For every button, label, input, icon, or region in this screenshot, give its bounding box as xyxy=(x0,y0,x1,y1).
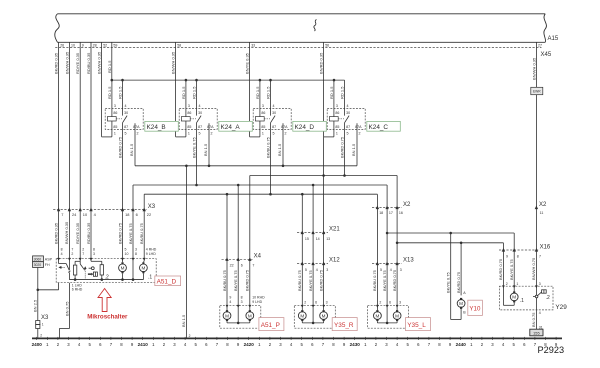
svg-text:30: 30 xyxy=(346,111,350,115)
svg-text:BK/YE 0.75: BK/YE 0.75 xyxy=(308,270,313,291)
svg-text:2: 2 xyxy=(285,132,287,136)
harness band right end curve xyxy=(544,14,547,43)
A51_D switch2 contact wire xyxy=(90,259,92,262)
junction A51_D bus middle xyxy=(132,278,135,281)
component Y35_R dashed box xyxy=(294,306,335,329)
svg-text:2400: 2400 xyxy=(32,342,43,347)
svg-text:BN 0.75: BN 0.75 xyxy=(531,312,536,327)
relay K24_A contact 87 stub xyxy=(196,123,198,130)
svg-text:BK/YE 0.75: BK/YE 0.75 xyxy=(382,270,387,291)
component A51_D dashed box xyxy=(56,259,156,283)
A51_D R2 bottom stub xyxy=(101,275,103,280)
relay K24_D pin4 wire RD 1.5 from bus xyxy=(270,80,272,116)
wire BK/YE 0.75 down to X4.6 xyxy=(237,185,239,259)
svg-text:14: 14 xyxy=(316,237,320,241)
svg-text:BK/YE 0.75: BK/YE 0.75 xyxy=(445,272,450,293)
wire RD/YE 0.35 X45.9 to X3.10 xyxy=(79,48,81,210)
svg-text:2420: 2420 xyxy=(244,342,255,347)
relay K24_B pin1 jog xyxy=(102,136,112,138)
A51_D switch1 contact stub to bus xyxy=(68,272,70,279)
wire BK/BU 0.75 net horizontal (X3.22-X2.18) xyxy=(144,193,377,195)
wire BK/BU 0.75 down to X4.22 xyxy=(226,194,228,259)
relay K24_C contact 87 stub xyxy=(344,123,346,130)
connector X4 pin 6 chevron xyxy=(237,257,240,261)
svg-text:BK/RD 0.75: BK/RD 0.75 xyxy=(392,269,397,291)
Y29 box entry mark xyxy=(513,285,516,288)
wire BN 0.75 Y29 to ground point xyxy=(535,310,537,329)
connector X45 pin 26 stub xyxy=(58,42,60,47)
A51_D microswitch lever 2 xyxy=(80,264,85,270)
connector X45 dashed line xyxy=(55,47,541,49)
A51_D motor left ground stub xyxy=(122,273,124,279)
harness band A15 bottom edge xyxy=(58,41,546,43)
svg-text:BK/BU 0.75: BK/BU 0.75 xyxy=(297,269,302,291)
svg-text:RD/BU 0.35: RD/BU 0.35 xyxy=(86,222,91,244)
connector X45 pin 33 stub xyxy=(249,42,251,47)
junction at X21.14 drop xyxy=(312,184,315,187)
wire BN/WH 0.35 X45.58 to relay K24_A coil xyxy=(175,48,177,137)
A51_D microswitch plunger 2 xyxy=(84,266,87,269)
svg-text:K24_B: K24_B xyxy=(147,124,166,131)
svg-text:56: 56 xyxy=(325,44,329,48)
connector X3 pin 24 chevron xyxy=(68,208,71,212)
svg-text:BK/BU 0.75: BK/BU 0.75 xyxy=(372,269,377,291)
svg-text:BN/WH 0.35: BN/WH 0.35 xyxy=(97,51,102,74)
svg-text:22: 22 xyxy=(230,264,234,268)
svg-text:18: 18 xyxy=(125,212,129,217)
Y35_L motor left feed xyxy=(376,306,378,310)
svg-text:BK/BU 0.75: BK/BU 0.75 xyxy=(265,136,270,158)
Y29 motor return loop xyxy=(513,302,515,305)
svg-text:87A: 87A xyxy=(355,125,362,129)
A51_P bottom bus xyxy=(227,322,250,324)
relay K24_A pin3 wire RD 1.5 from bus xyxy=(185,80,187,117)
Y35_R motor right xyxy=(320,312,328,320)
A51_D box entry mark xyxy=(57,258,60,261)
connector X12 pin 5 chevron xyxy=(301,261,304,265)
svg-text:3: 3 xyxy=(262,104,264,108)
harness band break squiggle xyxy=(314,20,317,32)
Y29 position switch element xyxy=(542,290,547,293)
wire BK/RD 0.75 K24_B.87 to X3.18 xyxy=(122,129,124,209)
svg-text:M: M xyxy=(395,313,399,318)
svg-text:85: 85 xyxy=(187,125,191,129)
svg-text:9 LHD: 9 LHD xyxy=(146,252,156,256)
relay K24_C pin4 wire RD 1.5 from bus xyxy=(344,80,346,116)
junction A51_D bus R2 xyxy=(101,278,104,281)
svg-text:59: 59 xyxy=(113,44,117,48)
wire BK/YE 0.75 X3 to A51_D xyxy=(132,210,134,259)
svg-text:RD 1.5: RD 1.5 xyxy=(118,86,123,99)
A51_D microswitch lever 1 xyxy=(66,264,69,271)
svg-text:A51_D: A51_D xyxy=(157,279,177,286)
svg-text:BN/WH 0.35: BN/WH 0.35 xyxy=(531,57,536,80)
relay K24_C switch arm xyxy=(345,116,350,123)
motor Y29 xyxy=(510,293,518,301)
svg-text:86: 86 xyxy=(187,111,191,115)
A51_D motor right ground stub xyxy=(142,273,144,279)
junction ground bus at K24_D.2 xyxy=(282,165,285,168)
A51_D microswitch plunger 1 xyxy=(58,266,61,269)
A51_P motor right stub xyxy=(249,321,251,323)
connector X13 pin 4 chevron xyxy=(385,261,388,265)
svg-text:BN/YE 0.35: BN/YE 0.35 xyxy=(245,52,250,74)
wire X21.15 to X12 xyxy=(301,233,303,264)
junction RD bus at K24_C.86 xyxy=(333,79,336,82)
junction RD bus at K24_D.86 xyxy=(259,79,262,82)
connector X16 pin 8 chevron xyxy=(513,248,516,252)
svg-text:BN 0.75: BN 0.75 xyxy=(64,301,69,316)
connector X16 dashed line xyxy=(499,249,539,251)
svg-text:2: 2 xyxy=(71,252,73,256)
junction RD bus at K24_B.30 xyxy=(121,79,124,82)
svg-text:6: 6 xyxy=(389,300,391,304)
svg-text:X3: X3 xyxy=(41,315,49,321)
connector X12 dashed line xyxy=(297,263,328,265)
Y35_R box entry mark xyxy=(312,305,315,308)
svg-text:.1: .1 xyxy=(148,275,152,281)
connector X21 dashed line xyxy=(297,232,328,234)
Y29 motor feed xyxy=(513,286,515,292)
junction at K24_C.87 xyxy=(343,174,346,177)
svg-text:K24_D: K24_D xyxy=(295,124,315,131)
svg-text:Y35_R: Y35_R xyxy=(334,322,354,329)
wire BN/YE 0.35 X45.33 to relay K24_D coil xyxy=(249,48,251,137)
svg-text:RD 1.5: RD 1.5 xyxy=(192,86,197,99)
svg-text:BK/YE 0.75: BK/YE 0.75 xyxy=(233,270,238,291)
connector X13 dashed line xyxy=(372,263,402,265)
connector X3 pin 6 chevron xyxy=(131,208,134,212)
connector X2 pin 16 chevron xyxy=(395,205,398,209)
A51_D ground pin to splice xyxy=(58,283,60,290)
svg-text:BK/RD 0.75: BK/RD 0.75 xyxy=(117,136,122,158)
A51_D resistor R2 xyxy=(100,265,103,275)
relay K24_B mech link xyxy=(116,118,122,120)
wire BK/YE 0.75 up from X3.6 xyxy=(132,185,134,210)
wire BK/RD 0.75 X13 to Y35_L xyxy=(396,264,398,306)
svg-text:4: 4 xyxy=(316,268,318,272)
A51_P box entry mark xyxy=(248,305,251,308)
connector X45 pin 56 stub xyxy=(323,42,325,47)
svg-text:87A: 87A xyxy=(133,125,140,129)
Y35_R box entry mark xyxy=(322,305,325,308)
Y35_R middle wire xyxy=(312,306,314,323)
svg-text:M: M xyxy=(121,266,125,271)
junction Y35_R bus middle xyxy=(312,322,315,325)
junction A51_P bus middle xyxy=(237,322,240,325)
Y35_R motor right stub xyxy=(323,321,325,323)
relay K24_B dashed box xyxy=(105,109,143,130)
component A51_P dashed box xyxy=(220,306,261,329)
red arrow Mikroschalter xyxy=(98,289,111,312)
svg-text:2: 2 xyxy=(211,132,213,136)
svg-text:5: 5 xyxy=(273,132,275,136)
Y35_L motor right stub xyxy=(396,321,398,323)
svg-text:M: M xyxy=(141,266,145,271)
svg-text:27: 27 xyxy=(538,44,542,48)
Y35_L motor right feed xyxy=(396,306,398,310)
Y35_L motor left xyxy=(374,312,382,320)
svg-text:M: M xyxy=(459,301,463,306)
A51_P motor left feed xyxy=(226,306,228,310)
svg-text:2: 2 xyxy=(137,132,139,136)
svg-text:Y10: Y10 xyxy=(469,305,481,312)
connector X3 bottom pin 2 box xyxy=(36,325,40,329)
svg-text:7: 7 xyxy=(82,252,84,256)
connector X45 pin 27 stub xyxy=(535,42,537,47)
Y35_R bottom bus xyxy=(302,322,323,324)
wire BK/YE 0.75 net horizontal (X3.6-X2.17) xyxy=(133,184,387,186)
A51_D R2 top stub xyxy=(101,261,103,264)
Y35_R motor left feed xyxy=(301,306,303,310)
svg-text:3: 3 xyxy=(241,300,243,304)
svg-text:BK/RD 0.75: BK/RD 0.75 xyxy=(339,136,344,158)
junction Y10 BK/YE branch xyxy=(449,232,452,235)
svg-text:RD 1.5: RD 1.5 xyxy=(181,86,186,99)
junction RD bus at K24_B.86 xyxy=(111,79,114,82)
svg-text:6 RHD: 6 RHD xyxy=(72,288,83,292)
relay K24_A switch arm xyxy=(197,116,202,123)
svg-text:X16: X16 xyxy=(540,244,551,250)
label box K24_A xyxy=(219,121,253,131)
svg-text:1: 1 xyxy=(262,132,264,136)
svg-text:1: 1 xyxy=(188,132,190,136)
svg-text:X45: X45 xyxy=(541,52,552,58)
label box K24_D xyxy=(293,121,327,131)
wire BN/WH 0.35 X45.52 to relay K24_B coil xyxy=(101,48,103,137)
A51_D motor left feed xyxy=(122,259,124,263)
connector X12 pin 3 chevron xyxy=(322,261,325,265)
svg-text:2: 2 xyxy=(506,282,508,286)
relay K24_A coil xyxy=(181,117,190,121)
svg-text:5: 5 xyxy=(125,132,127,136)
svg-text:M: M xyxy=(375,313,379,318)
A51_P middle wire xyxy=(237,306,239,323)
relay K24_A dashed box xyxy=(179,109,217,130)
junction X2.17 branch xyxy=(386,232,389,235)
svg-text:18: 18 xyxy=(379,211,383,215)
Y29 box entry mark xyxy=(502,285,505,288)
connector X45 pin 28 stub xyxy=(90,42,92,47)
wire BK/YE 0.75 down to X21.14 xyxy=(312,185,314,233)
svg-text:M: M xyxy=(322,313,326,318)
svg-text:BN/WH 0.75: BN/WH 0.75 xyxy=(531,257,536,280)
ground point box 155 xyxy=(530,329,543,336)
svg-text:9 LHD: 9 LHD xyxy=(252,300,262,304)
Y35_L bottom bus xyxy=(377,322,397,324)
svg-text:Y29: Y29 xyxy=(555,304,567,311)
connector X21 pin 14 chevron xyxy=(311,230,314,234)
motor Y10 xyxy=(457,300,465,308)
connector X3 dashed line xyxy=(53,209,146,211)
connector X16 pin 9 chevron xyxy=(502,248,505,252)
A51_P motor right feed xyxy=(249,306,251,310)
svg-text:X3: X3 xyxy=(148,204,156,210)
A51_D switch1 contact wire xyxy=(68,259,70,271)
svg-text:BK/RD 0.75: BK/RD 0.75 xyxy=(318,269,323,291)
svg-text:X13: X13 xyxy=(403,258,414,264)
relay K24_A contact 87A stub xyxy=(208,123,210,129)
connector X2 pin 18 chevron xyxy=(376,205,379,209)
svg-text:2: 2 xyxy=(304,300,306,304)
relay K24_A pin4 wire RD 1.5 from bus xyxy=(196,80,198,116)
junction A51_D bus R1 xyxy=(74,278,77,281)
connector X13 pin 5 chevron xyxy=(376,261,379,265)
svg-text:86: 86 xyxy=(261,111,265,115)
connector X45 pin 9 stub xyxy=(79,42,81,47)
A51_D box entry mark xyxy=(143,258,146,261)
svg-text:87A: 87A xyxy=(207,125,214,129)
svg-text:BK/RD 0.75: BK/RD 0.75 xyxy=(498,258,503,280)
svg-text:M: M xyxy=(248,313,252,318)
svg-text:85: 85 xyxy=(335,125,339,129)
connector X45 pin 58 stub xyxy=(175,42,177,47)
svg-text:7: 7 xyxy=(539,254,541,258)
wire BK/BU 0.75 down to X2.18 xyxy=(376,194,378,207)
connector X3 pin 4 chevron xyxy=(89,208,92,212)
junction ground bus at K24_A.2 xyxy=(208,165,211,168)
wire BK/YE 0.75 down to X2.17 xyxy=(386,185,388,208)
svg-text:155: 155 xyxy=(533,331,540,336)
branch BK/YE 0.75 to X16.8 xyxy=(387,232,514,234)
Y35_R motor left xyxy=(298,312,306,320)
svg-text:P2923: P2923 xyxy=(538,345,565,355)
Y29 position switch contact xyxy=(533,296,535,298)
connector X2 dashed line xyxy=(372,207,402,209)
relay K24_D contact 87A stub xyxy=(282,123,284,129)
relay K24_D coil xyxy=(255,117,264,121)
wire BK/RD 0.75 X3 to A51_D xyxy=(122,210,124,259)
ground drop BN 1.5 to earth rail xyxy=(185,166,187,339)
svg-text:52: 52 xyxy=(103,44,107,48)
relay K24_D mech link xyxy=(264,118,270,120)
junction at K24_A.87 xyxy=(195,184,198,187)
A51_D switch1 feed wire xyxy=(58,259,60,264)
svg-text:4: 4 xyxy=(125,104,127,108)
svg-text:ASP: ASP xyxy=(45,257,53,261)
label box Y35_L xyxy=(406,318,431,331)
svg-text:85: 85 xyxy=(113,125,117,129)
wire X21.13 to X12 xyxy=(323,233,325,264)
svg-text:9: 9 xyxy=(506,254,508,258)
wire BN/RD 0.35 X45.56 to relay K24_C and X21.13 xyxy=(323,48,325,233)
svg-text:87: 87 xyxy=(198,125,202,129)
svg-text:BN/WH 0.35: BN/WH 0.35 xyxy=(64,51,69,74)
svg-text:BN/WH 0.35: BN/WH 0.35 xyxy=(64,221,69,244)
svg-text:86: 86 xyxy=(335,111,339,115)
svg-text:BK/RD 0.75: BK/RD 0.75 xyxy=(117,222,122,244)
junction at X21.15 drop xyxy=(301,193,304,196)
svg-text:RD 1.5: RD 1.5 xyxy=(107,86,112,99)
wire BN/WH X2.11 to X16.7 xyxy=(535,208,537,251)
svg-text:16: 16 xyxy=(399,211,403,215)
svg-text:Mikroschalter: Mikroschalter xyxy=(87,314,128,321)
relay K24_D dashed box xyxy=(253,109,291,130)
A51_D heater arrow symbol xyxy=(88,273,91,275)
svg-text:3: 3 xyxy=(539,282,541,286)
wire BK/RD 0.75 to Y10 xyxy=(460,243,462,296)
junction Y35_L bus middle xyxy=(386,322,389,325)
svg-text:X2: X2 xyxy=(539,202,547,208)
svg-text:Y35_L: Y35_L xyxy=(407,322,426,329)
ground wire BN 1.5 K24_A.2 drop xyxy=(208,129,210,165)
label box Y35_R xyxy=(332,318,357,331)
svg-text:87: 87 xyxy=(346,125,350,129)
relay K24_A mech link xyxy=(190,118,196,120)
wire BK/RD 0.75 X12 to Y35_R xyxy=(323,264,325,306)
svg-text:X12: X12 xyxy=(329,258,340,264)
wire BN/WH 0.35 X45.27 down to EWR xyxy=(535,48,537,88)
svg-text:7: 7 xyxy=(61,212,63,217)
svg-text:9: 9 xyxy=(82,44,84,48)
svg-text:2: 2 xyxy=(379,300,381,304)
A51_D box entry mark xyxy=(79,258,82,261)
svg-text:RD 1.5: RD 1.5 xyxy=(255,86,260,99)
connector X21 pin 15 chevron xyxy=(301,230,304,234)
relay K24_C pin1 jog xyxy=(324,136,334,138)
svg-text:33: 33 xyxy=(251,44,255,48)
svg-text:BN 2.5: BN 2.5 xyxy=(32,299,37,312)
relay K24_B coil xyxy=(107,117,116,121)
svg-text:8: 8 xyxy=(135,252,137,256)
connector X16 pin 7 chevron xyxy=(535,248,538,252)
Y10 ground link xyxy=(451,319,461,321)
svg-text:30: 30 xyxy=(124,111,128,115)
Y29 position switch wire xyxy=(535,286,537,310)
connector X21 pin 13 chevron xyxy=(322,230,325,234)
junction at K24_D.87 xyxy=(269,193,272,196)
relay K24_C pin3 wire RD 1.5 from bus xyxy=(333,80,335,117)
earth rail tick marks xyxy=(37,337,556,340)
svg-text:BK/BU 0.75: BK/BU 0.75 xyxy=(139,222,144,244)
A51_D resistor R1 xyxy=(73,265,76,275)
wire BK/BU 0.75 X4 to A51_P xyxy=(226,259,228,305)
svg-text:BN 1.5: BN 1.5 xyxy=(351,143,356,156)
label box A51_D xyxy=(155,276,181,286)
relay K24_C coil to pin1 xyxy=(333,121,335,137)
relay K24_B switch arm xyxy=(123,116,128,123)
svg-text:3: 3 xyxy=(326,300,328,304)
reference box 3020 FH xyxy=(33,262,44,268)
connector X3 pin 18 chevron xyxy=(121,208,124,212)
svg-text:4: 4 xyxy=(347,104,349,108)
junction at X4.22 drop xyxy=(226,193,229,196)
wire BK/BU 0.75 X12 to Y35_R xyxy=(301,264,303,306)
svg-text:5: 5 xyxy=(199,132,201,136)
svg-text:BN 1.5: BN 1.5 xyxy=(129,143,134,156)
wire X21.14 to X12 xyxy=(312,233,314,264)
wire X2.18 to X13 xyxy=(376,208,378,264)
svg-text:BK/YE 0.75: BK/YE 0.75 xyxy=(509,259,514,280)
svg-text:RD/BU 0.35: RD/BU 0.35 xyxy=(86,52,91,74)
svg-text:3: 3 xyxy=(93,252,95,256)
wire X2.16 to X13 xyxy=(396,208,398,264)
svg-text:EWR: EWR xyxy=(533,90,541,94)
svg-text:4: 4 xyxy=(273,104,275,108)
svg-text:3060: 3060 xyxy=(34,257,42,261)
label box K24_C xyxy=(367,121,401,131)
relay K24_A pin1 jog xyxy=(176,136,186,138)
wire RD/BU 0.35 X45.28 to X3.4 xyxy=(90,48,92,210)
svg-text:BK/YE 0.75: BK/YE 0.75 xyxy=(191,137,196,158)
Y35_R box entry mark xyxy=(301,305,304,308)
connector X4 pin 22 chevron xyxy=(225,257,228,261)
relay K24_B coil to pin1 xyxy=(111,121,113,137)
svg-text:1: 1 xyxy=(114,132,116,136)
A51_D box entry mark xyxy=(132,258,135,261)
wire BN 0.75 A51_D pin1 down xyxy=(69,283,71,329)
A51_D mirror motor left xyxy=(119,264,127,272)
